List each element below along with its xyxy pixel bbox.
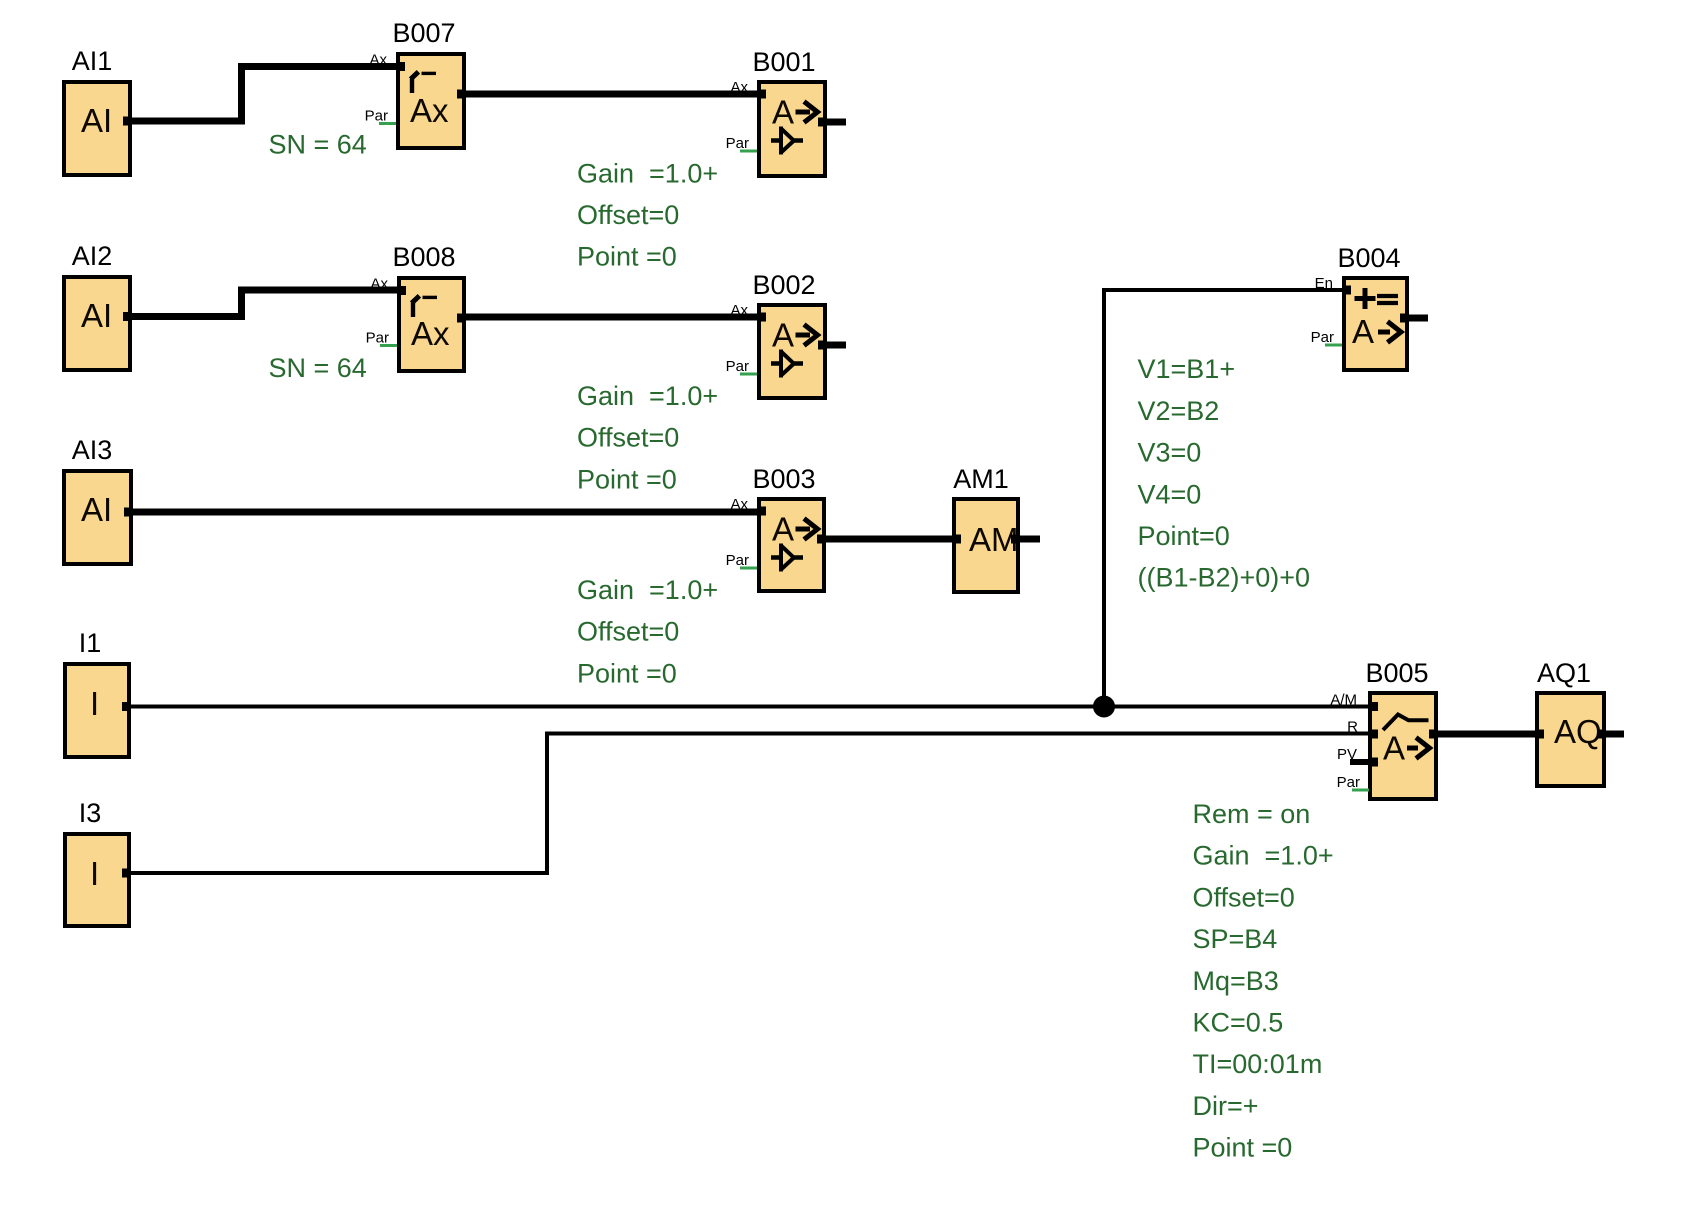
wire I1 output to B005 A/M input	[131, 705, 1370, 709]
svg-text:I: I	[90, 855, 99, 892]
wire branch from junction to B004 En input	[1104, 290, 1344, 707]
svg-text:Par: Par	[365, 108, 388, 125]
svg-text:V2=B2: V2=B2	[1138, 396, 1220, 426]
wire B002 output stub	[819, 342, 846, 349]
svg-text:B004: B004	[1337, 243, 1400, 273]
function block B001 analog amplifier	[726, 47, 827, 176]
function block B005 PI controller	[1330, 658, 1438, 799]
AQ1 output pin tick	[1597, 730, 1606, 739]
svg-text:I: I	[90, 685, 99, 722]
svg-text:Ax: Ax	[730, 496, 748, 513]
svg-text:Point =0: Point =0	[577, 658, 677, 688]
B001 output pin tick	[818, 118, 827, 127]
svg-text:Point=0: Point=0	[1138, 521, 1230, 551]
svg-text:A: A	[1352, 313, 1374, 350]
svg-text:((B1-B2)+0)+0: ((B1-B2)+0)+0	[1138, 563, 1311, 593]
wire B004 output stub	[1401, 315, 1428, 322]
parameter value labels for B002	[577, 381, 718, 494]
wire I3 output to B005 R input	[131, 734, 1370, 874]
svg-text:TI=00:01m: TI=00:01m	[1193, 1049, 1323, 1079]
svg-text:Gain =1.0+: Gain =1.0+	[577, 158, 718, 188]
wire B005 PV input stub	[1350, 759, 1370, 765]
svg-text:Ax: Ax	[730, 79, 748, 96]
AM1 output pin tick	[1011, 535, 1020, 544]
B007 output pin tick	[457, 90, 466, 99]
svg-text:AI: AI	[81, 297, 112, 334]
svg-text:A: A	[1383, 730, 1405, 767]
svg-text:KC=0.5: KC=0.5	[1193, 1008, 1284, 1038]
svg-text:Gain =1.0+: Gain =1.0+	[577, 381, 718, 411]
svg-text:Offset=0: Offset=0	[577, 423, 679, 453]
svg-text:A: A	[772, 317, 794, 354]
wire B005 output to AQ1 input	[1436, 731, 1537, 738]
svg-text:Par: Par	[726, 135, 749, 152]
B005 output pin tick	[1429, 730, 1438, 739]
B001 Par green stub	[740, 150, 757, 153]
AI2 output pin tick	[123, 312, 132, 321]
B005 R input pin tick	[1369, 730, 1378, 739]
svg-text:Ax: Ax	[370, 276, 388, 293]
svg-text:AM1: AM1	[953, 464, 1009, 494]
svg-text:Mq=B3: Mq=B3	[1193, 966, 1279, 996]
input/output block AI1	[64, 46, 132, 175]
B007 Ax input pin tick	[396, 62, 405, 71]
svg-text:Par: Par	[1311, 329, 1334, 346]
function block B003 analog amplifier	[726, 464, 826, 591]
input/output block AI2	[64, 241, 132, 370]
AI3 output pin tick	[124, 508, 133, 517]
svg-text:B002: B002	[752, 270, 815, 300]
B005 Par green stub	[1352, 789, 1369, 792]
B004 output pin tick	[1400, 314, 1409, 323]
svg-text:B007: B007	[392, 18, 455, 48]
parameter value labels for B005	[1193, 799, 1334, 1163]
B005 icon arrow	[1407, 738, 1430, 759]
svg-text:Gain =1.0+: Gain =1.0+	[1193, 841, 1334, 871]
B003 Par green stub	[740, 567, 757, 570]
svg-text:V1=B1+: V1=B1+	[1138, 354, 1236, 384]
svg-text:I1: I1	[79, 628, 102, 658]
svg-text:Rem = on: Rem = on	[1193, 799, 1311, 829]
B007 Par green stub	[379, 122, 396, 125]
wire B003 output to AM1 input	[824, 536, 954, 543]
B003 amplifier triangle symbol	[771, 555, 803, 560]
svg-text:Par: Par	[726, 552, 749, 569]
B005 PV input pin tick	[1369, 758, 1378, 767]
svg-text:Offset=0: Offset=0	[577, 200, 679, 230]
B004 icon arrow	[1378, 322, 1401, 343]
B001 amplifier triangle symbol	[771, 138, 803, 143]
svg-text:A/M: A/M	[1330, 692, 1357, 709]
B002 amplifier triangle symbol	[771, 361, 803, 366]
svg-text:Par: Par	[726, 358, 749, 375]
B007 ramp icon	[410, 79, 414, 93]
B008 ramp icon	[411, 303, 415, 317]
input/output block I3	[65, 798, 131, 926]
AI1 output pin tick	[123, 117, 132, 126]
B008 Par green stub	[380, 344, 397, 347]
svg-text:SP=B4: SP=B4	[1193, 924, 1278, 954]
svg-text:Offset=0: Offset=0	[1193, 882, 1295, 912]
svg-text:Dir=+: Dir=+	[1193, 1091, 1259, 1121]
svg-text:Ax: Ax	[369, 52, 387, 69]
function block B008 analog network input	[366, 242, 466, 371]
junction node on I1 wire	[1093, 696, 1115, 718]
svg-text:Offset=0: Offset=0	[577, 617, 679, 647]
svg-text:Ax: Ax	[410, 92, 449, 129]
parameter value labels for B001	[577, 158, 718, 271]
B005 A/M input pin tick	[1369, 702, 1378, 711]
svg-text:AI1: AI1	[72, 46, 113, 76]
svg-text:A: A	[772, 94, 794, 131]
parameter value labels for B003	[577, 575, 718, 688]
B003 output pin tick	[817, 535, 826, 544]
value label SN for B008	[269, 353, 367, 383]
wire B008 output to B002 Ax input	[464, 314, 759, 321]
svg-text:AI3: AI3	[72, 435, 113, 465]
function block B007 analog network input	[365, 18, 466, 148]
svg-text:Point =0: Point =0	[577, 242, 677, 272]
value label SN for B007	[269, 130, 367, 160]
B002 output pin tick	[818, 341, 827, 350]
svg-text:SN = 64: SN = 64	[269, 353, 367, 383]
AQ1 input pin tick	[1535, 730, 1544, 739]
B002 Par green stub	[740, 373, 757, 376]
svg-text:Ax: Ax	[411, 315, 450, 352]
svg-text:B005: B005	[1365, 658, 1428, 688]
svg-text:AI: AI	[81, 102, 112, 139]
parameter value labels for B004	[1138, 354, 1311, 593]
AM1 input pin tick	[952, 535, 961, 544]
svg-text:AI2: AI2	[72, 241, 113, 271]
svg-text:Par: Par	[1337, 774, 1360, 791]
svg-text:B008: B008	[392, 242, 455, 272]
function block B004 analog math instruction	[1311, 243, 1409, 370]
input/output block AI3	[64, 435, 133, 564]
B004 En input pin tick	[1342, 286, 1351, 295]
svg-text:Ax: Ax	[730, 302, 748, 319]
function block B002 analog amplifier	[726, 270, 827, 398]
svg-text:V3=0: V3=0	[1138, 438, 1202, 468]
svg-text:Point =0: Point =0	[1193, 1133, 1293, 1163]
B002 icon arrow	[796, 325, 818, 346]
svg-text:Par: Par	[366, 330, 389, 347]
svg-text:PV: PV	[1337, 746, 1357, 763]
B001 icon arrow	[796, 102, 818, 123]
svg-text:V4=0: V4=0	[1138, 479, 1202, 509]
wire AM1 output stub	[1012, 536, 1040, 543]
svg-text:I3: I3	[79, 798, 102, 828]
output block AQ1	[1535, 658, 1606, 786]
svg-text:AQ: AQ	[1554, 713, 1602, 750]
wire AI2 output to B008 Ax input	[132, 290, 399, 317]
B004 Par green stub	[1325, 344, 1342, 347]
I1 output pin tick	[122, 702, 131, 711]
svg-text:R: R	[1347, 719, 1358, 736]
svg-text:SN = 64: SN = 64	[269, 130, 367, 160]
B001 Ax input pin tick	[757, 90, 766, 99]
svg-text:AQ1: AQ1	[1537, 658, 1591, 688]
B008 Ax input pin tick	[397, 286, 406, 295]
wire AI3 output to B003 Ax input	[133, 509, 759, 516]
analog flag block AM1	[952, 464, 1020, 592]
B002 Ax input pin tick	[757, 313, 766, 322]
wire B001 output stub	[819, 119, 846, 126]
wire AI1 output to B007 Ax input	[132, 67, 398, 122]
svg-text:B001: B001	[752, 47, 815, 77]
svg-text:AI: AI	[81, 491, 112, 528]
wire B007 output to B001 Ax input	[464, 91, 759, 98]
I3 output pin tick	[122, 869, 131, 878]
B008 output pin tick	[457, 314, 466, 323]
B003 Ax input pin tick	[757, 507, 766, 516]
svg-text:B003: B003	[752, 464, 815, 494]
svg-text:En: En	[1315, 275, 1333, 292]
svg-text:Point =0: Point =0	[577, 464, 677, 494]
wire AQ1 output stub	[1598, 731, 1624, 738]
svg-text:A: A	[772, 511, 794, 548]
input/output block I1	[65, 628, 131, 757]
B005 setpoint curve icon	[1383, 715, 1429, 731]
B004 plus-equals icon	[1355, 288, 1376, 309]
B003 icon arrow	[796, 519, 818, 540]
svg-text:Gain =1.0+: Gain =1.0+	[577, 575, 718, 605]
